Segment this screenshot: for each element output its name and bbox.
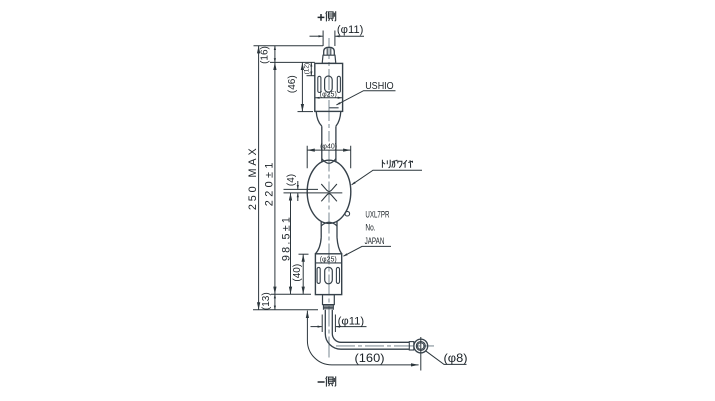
svg-text:220±1: 220±1: [263, 159, 275, 206]
bulb bottom inner seal arc: [321, 222, 337, 226]
cathode vent slot right: [336, 267, 339, 283]
ref line top tip: [254, 45, 324, 47]
dim phi11 top right underline: [335, 35, 364, 37]
svg-text:(160): (160): [355, 351, 385, 365]
upper neck: [322, 126, 336, 162]
svg-text:(φ8): (φ8): [444, 351, 468, 365]
dim phi11 bottom left: [311, 326, 322, 328]
electrode gap upper tick: [284, 188, 319, 190]
svg-text:No.: No.: [365, 223, 375, 233]
leader trigger wire: [352, 170, 422, 185]
leader JAPAN stamp: [343, 246, 391, 256]
svg-text:USHIO: USHIO: [365, 81, 394, 92]
svg-text:250 MAX: 250 MAX: [247, 145, 259, 210]
svg-text:(φ11): (φ11): [337, 24, 364, 36]
anode dome cap: [324, 47, 335, 55]
cathode vent capsule center: [325, 267, 333, 284]
ref line base bottom: [271, 293, 311, 295]
anode dome ticks: [327, 48, 331, 55]
centerline vertical axis: [328, 38, 330, 142]
svg-text:(φ11): (φ11): [338, 316, 365, 328]
anode body: [315, 63, 343, 111]
text (phi40): [326, 142, 332, 149]
kanji gawa top: [326, 11, 336, 21]
dim 40: [302, 254, 304, 294]
ring center extension: [420, 337, 422, 371]
cathode threaded tip: [323, 305, 333, 310]
anode stamp tick: [329, 107, 338, 109]
lower electrode: [321, 194, 337, 202]
dim 250 MAX: [258, 46, 260, 310]
ga: [392, 160, 397, 168]
minus sign of -side: [318, 381, 325, 383]
dim 160 bent line: [307, 311, 418, 365]
svg-text:98.5±1: 98.5±1: [280, 215, 292, 261]
ring terminal outer: [414, 339, 428, 353]
ri: [387, 160, 390, 168]
dim 220: [274, 62, 276, 294]
electrode axis line: [284, 192, 343, 194]
anode vent slot right: [337, 76, 340, 92]
anode vent slot left: [318, 76, 321, 92]
dim 46: [301, 62, 303, 111]
to: [382, 160, 385, 168]
phi11 top extension lines: [323, 31, 335, 47]
svg-text:(φ40): (φ40): [320, 144, 337, 151]
svg-text:JAPAN: JAPAN: [365, 236, 385, 246]
svg-text:(12): (12): [304, 63, 311, 75]
anode collar: [322, 55, 336, 63]
svg-text:(φ25): (φ25): [320, 257, 337, 264]
cable outer edge: [325, 310, 409, 349]
bulb top inner seal arc: [322, 159, 336, 164]
ref tick slot top (12): [307, 75, 316, 77]
svg-text:(13): (13): [261, 292, 272, 310]
cathode body: [315, 254, 341, 295]
dim 13: [274, 294, 276, 310]
svg-text:(φ25): (φ25): [320, 91, 337, 98]
trigger wire curl: [345, 211, 350, 216]
svg-text:(16): (16): [260, 46, 271, 64]
dim phi11 bottom right underline: [336, 326, 367, 328]
ref tick anode body bottom (46): [298, 111, 314, 113]
ref line anode body top: [270, 61, 315, 63]
anode vent capsule center: [325, 76, 333, 92]
ref tick cathode body top (40): [299, 253, 309, 255]
i: [403, 160, 407, 168]
ferrule: [409, 342, 414, 350]
leader phi8: [425, 351, 466, 365]
dim 4 arrows: [297, 181, 299, 189]
anode phi25 dim line: [316, 97, 342, 99]
wa: [398, 161, 402, 167]
ring terminal hole: [416, 342, 425, 351]
cathode band line: [315, 262, 341, 264]
svg-text:(40): (40): [292, 264, 303, 282]
upper electrode: [321, 184, 337, 192]
dim phi40: [307, 149, 351, 151]
leader USHIO: [336, 91, 395, 105]
anode taper to neck: [316, 111, 341, 126]
svg-text:(46): (46): [287, 75, 298, 93]
lower neck: [321, 221, 337, 238]
svg-text:UXL7PR: UXL7PR: [365, 210, 389, 220]
cathode nipple: [323, 295, 335, 305]
dim 98.5: [290, 193, 292, 294]
plus sign of +side: [318, 14, 325, 21]
kanji gawa bottom: [326, 376, 336, 386]
katakana label trigger wire: [382, 160, 412, 168]
dim phi11 top left: [310, 35, 323, 37]
centerline cable axis: [336, 345, 434, 347]
ref line lamp end: [253, 309, 318, 311]
svg-text:(4): (4): [286, 174, 297, 186]
dim 12: [310, 62, 312, 75]
dim 16: [274, 46, 276, 63]
lower flare: [315, 238, 341, 254]
cathode vent slot left: [317, 267, 320, 283]
phi40 extension lines: [307, 146, 351, 168]
bulb ellipse: [307, 160, 351, 223]
ya: [408, 160, 412, 168]
cable inner edge: [332, 310, 409, 343]
phi11 bottom extension lines: [322, 315, 335, 333]
